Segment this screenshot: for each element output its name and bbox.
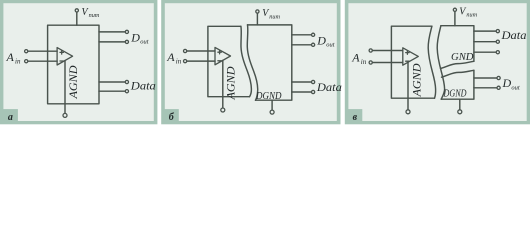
- terminal Data1 (panel v): [496, 30, 499, 33]
- label Vpit (panel v): [459, 7, 477, 19]
- svg-text:D: D: [130, 30, 140, 44]
- terminal Vpit (panel v): [453, 8, 456, 11]
- terminal Ain- (panel b): [184, 60, 187, 63]
- tear line left (panel v): [428, 26, 435, 98]
- svg-text:Data: Data: [316, 80, 342, 94]
- op-amp U1 (panel b): [215, 47, 231, 64]
- svg-text:Data: Data: [130, 79, 156, 93]
- wire Data2 (panel b): [292, 91, 311, 93]
- tear line right (panel v): [437, 26, 444, 100]
- IC body (panel a): [48, 25, 99, 104]
- terminal Ain+ (panel v): [369, 49, 372, 52]
- wire opamp ground (panel b): [222, 60, 224, 108]
- terminal Dout2 (panel v): [497, 86, 500, 89]
- panel v badge: [347, 109, 362, 123]
- op-amp U1 (panel a): [57, 48, 73, 65]
- terminal AGND (panel v): [406, 110, 410, 114]
- wire Dout1 (panel b): [292, 34, 311, 36]
- label Ain (panel a): [6, 50, 21, 65]
- wire Data1 (panel v): [474, 30, 496, 32]
- terminal Vpit (panel a): [75, 9, 78, 12]
- label Ain (panel v): [351, 51, 366, 66]
- panel v card: [345, 0, 530, 124]
- svg-text:in: in: [361, 58, 367, 66]
- svg-text:GND: GND: [451, 52, 474, 63]
- wire Dout2 (panel a): [99, 41, 125, 43]
- svg-text:out: out: [326, 42, 335, 49]
- svg-text:A: A: [166, 50, 175, 64]
- terminal Ain+ (panel a): [25, 50, 28, 53]
- IC digital part DGND (panel b): [248, 25, 292, 100]
- wire Dout1 (panel a): [99, 31, 125, 33]
- svg-text:out: out: [140, 39, 149, 46]
- svg-text:DGND: DGND: [255, 91, 282, 102]
- terminal Data3 (panel v): [496, 51, 499, 54]
- terminal DGND (panel v): [458, 110, 462, 114]
- label Vpit (panel b): [262, 8, 280, 20]
- IC digital part GND (panel v): [441, 26, 474, 62]
- terminal Vpit (panel b): [256, 10, 259, 13]
- svg-text:D: D: [502, 76, 512, 90]
- panel b badge: [164, 109, 179, 123]
- svg-text:DGND: DGND: [443, 88, 467, 99]
- wire Ain+ (panel v): [373, 50, 403, 52]
- wire Dout1 (panel v): [474, 77, 497, 79]
- terminal Dout2 (panel b): [312, 43, 315, 46]
- panel a card: [0, 0, 157, 124]
- svg-text:AGND: AGND: [409, 63, 423, 97]
- svg-text:A: A: [6, 50, 15, 64]
- svg-text:AGND: AGND: [224, 66, 238, 100]
- svg-text:пит: пит: [466, 12, 477, 19]
- terminal AGND (panel b): [221, 108, 225, 112]
- terminal Dout1 (panel v): [497, 76, 500, 79]
- wire opamp ground (panel v): [407, 62, 409, 110]
- terminal Ain- (panel v): [369, 61, 372, 64]
- wire DGND ground (panel v): [459, 99, 461, 110]
- wire opamp ground (panel a): [64, 61, 66, 114]
- wire Data2 (panel a): [99, 90, 125, 92]
- label Dout (panel v): [502, 76, 520, 92]
- tear line GND bottom (panel v): [441, 61, 474, 68]
- wire Vpit (panel v): [454, 12, 456, 26]
- terminal DGND (panel b): [270, 110, 274, 114]
- svg-text:пит: пит: [269, 13, 280, 20]
- IC analog part AGND (panel v): [391, 26, 434, 98]
- svg-text:а: а: [8, 112, 13, 123]
- wire Ain- (panel b): [187, 60, 215, 62]
- wire Dout2 (panel v): [474, 87, 497, 89]
- svg-text:AGND: AGND: [66, 65, 80, 99]
- terminal AGND (panel a): [63, 113, 67, 117]
- op-amp U1 (panel v): [403, 48, 419, 65]
- wire Ain+ (panel b): [187, 50, 215, 52]
- terminal Data2 (panel v): [496, 40, 499, 43]
- terminal Data1 (panel b): [312, 80, 315, 83]
- wire Data2 (panel v): [474, 41, 496, 43]
- wire Ain- (panel a): [28, 60, 57, 62]
- svg-text:out: out: [511, 84, 520, 91]
- svg-text:в: в: [353, 112, 358, 123]
- panel a badge: [3, 109, 18, 123]
- wire Data3 (panel v): [474, 51, 496, 53]
- wire Ain- (panel v): [373, 62, 403, 64]
- label Dout (panel a): [130, 30, 148, 45]
- terminal Data2 (panel a): [125, 90, 128, 93]
- svg-text:in: in: [176, 58, 182, 66]
- svg-text:пит: пит: [89, 12, 100, 19]
- wire DGND ground (panel b): [271, 100, 273, 110]
- svg-text:A: A: [351, 51, 360, 65]
- terminal Ain+ (panel b): [184, 49, 187, 52]
- tear line left (panel b): [241, 26, 252, 96]
- IC digital part DGND (panel v): [441, 70, 474, 99]
- label Vpit (panel a): [82, 7, 100, 19]
- wire Ain+ (panel a): [28, 50, 57, 52]
- wire Data1 (panel a): [99, 81, 125, 83]
- wire Data1 (panel b): [292, 81, 311, 83]
- tear line right (panel b): [247, 25, 257, 100]
- svg-text:in: in: [15, 58, 21, 66]
- wire Dout2 (panel b): [292, 44, 311, 46]
- terminal Data1 (panel a): [125, 80, 128, 83]
- terminal Dout1 (panel b): [312, 33, 315, 36]
- label Dout (panel b): [316, 33, 334, 48]
- panel b card: [161, 0, 340, 124]
- label Ain (panel b): [166, 50, 181, 65]
- terminal Ain- (panel a): [25, 60, 28, 63]
- terminal Data2 (panel b): [312, 90, 315, 93]
- terminal Dout2 (panel a): [125, 40, 128, 43]
- wire Vpit (panel b): [256, 14, 258, 25]
- svg-text:D: D: [316, 33, 326, 47]
- IC analog part AGND (panel b): [208, 26, 250, 96]
- wire Vpit (panel a): [76, 13, 78, 26]
- tear line DGND top (panel v): [442, 70, 474, 77]
- svg-text:Data: Data: [500, 28, 526, 42]
- terminal Dout1 (panel a): [125, 30, 128, 33]
